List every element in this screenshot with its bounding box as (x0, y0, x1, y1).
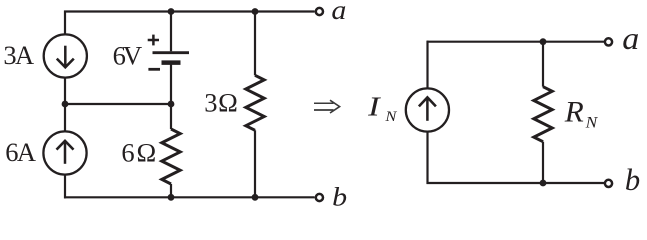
svg-text:R: R (564, 95, 584, 128)
wire: right circuit top rail (427, 41, 604, 43)
junction dot (left rail / middle wire) (62, 101, 69, 108)
terminal b (left circuit, open circle) (316, 194, 323, 201)
wire: RN resistor bottom lead (542, 142, 544, 183)
resistor 3ohm zigzag (246, 75, 264, 130)
wire: right circuit left rail lower (426, 131, 428, 184)
svg-text:6Ω: 6Ω (121, 138, 156, 168)
minus sign (battery polarity) (148, 68, 160, 71)
junction dot (bottom rail / 6ohm branch) (168, 194, 175, 201)
terminal b (right circuit, open circle) (605, 180, 612, 187)
junction dot (bottom rail / 3ohm branch) (252, 194, 259, 201)
wire: left circuit bottom rail (64, 196, 315, 198)
svg-text:N: N (585, 114, 599, 131)
wire: left rail lower segment (64, 175, 66, 199)
wire: right circuit left rail upper (426, 41, 428, 89)
wire: left circuit top rail (64, 10, 315, 12)
wire: 6ohm resistor top lead (170, 104, 172, 129)
wire: battery bottom lead (170, 64, 172, 105)
wire: 3ohm resistor top lead (254, 12, 256, 76)
resistor RN zigzag (534, 87, 552, 142)
plus sign (battery polarity) (148, 35, 159, 46)
wire: battery top lead (170, 12, 172, 52)
current source 6A (arrow up) (43, 131, 86, 174)
wire: middle horizontal wire (65, 103, 171, 105)
svg-text:a: a (331, 0, 346, 25)
junction dot (top rail / battery branch) (168, 8, 175, 15)
implication arrow (double arrow) (314, 100, 340, 113)
svg-text:6A: 6A (5, 137, 36, 167)
wire: RN resistor top lead (542, 42, 544, 87)
junction dot (bottom rail / RN branch) (540, 180, 547, 187)
svg-text:b: b (625, 162, 640, 197)
battery V1 6V: short negative plate (162, 60, 181, 65)
wire: right circuit bottom rail (427, 182, 605, 184)
svg-text:6V: 6V (113, 41, 143, 71)
junction dot (middle wire / battery branch) (168, 101, 175, 108)
terminal a (left circuit, open circle) (316, 8, 323, 15)
wire: left rail upper segment (64, 11, 66, 35)
current source 3A (arrow down) (44, 34, 87, 77)
svg-text:3Ω: 3Ω (204, 88, 238, 118)
wire: 6ohm resistor bottom lead (170, 184, 172, 197)
resistor 6ohm zigzag (162, 129, 180, 184)
junction dot (top rail / 3ohm branch) (252, 8, 259, 15)
junction dot (top rail / RN branch) (540, 38, 547, 45)
current source IN (arrow up) (406, 88, 449, 131)
wire: left rail between sources (64, 78, 66, 132)
svg-text:a: a (622, 20, 639, 56)
battery V1 6V: long positive plate (153, 51, 190, 54)
svg-text:N: N (384, 109, 397, 125)
terminal a (right circuit, open circle) (605, 38, 612, 45)
wire: 3ohm resistor bottom lead (254, 130, 256, 197)
svg-text:3A: 3A (3, 40, 34, 70)
svg-text:b: b (332, 182, 347, 212)
